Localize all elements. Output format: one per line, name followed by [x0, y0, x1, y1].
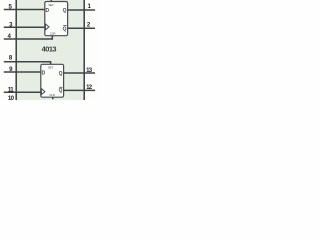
- svg-text:Q: Q: [59, 88, 63, 94]
- svg-text:4013: 4013: [42, 45, 57, 54]
- svg-text:Q: Q: [59, 71, 63, 77]
- svg-text:Q: Q: [63, 26, 67, 32]
- svg-text:8: 8: [9, 55, 13, 62]
- svg-text:Q: Q: [63, 8, 67, 14]
- svg-text:D: D: [46, 8, 50, 14]
- svg-text:SET: SET: [48, 66, 54, 70]
- svg-text:D: D: [42, 71, 46, 77]
- svg-text:SET: SET: [48, 3, 54, 7]
